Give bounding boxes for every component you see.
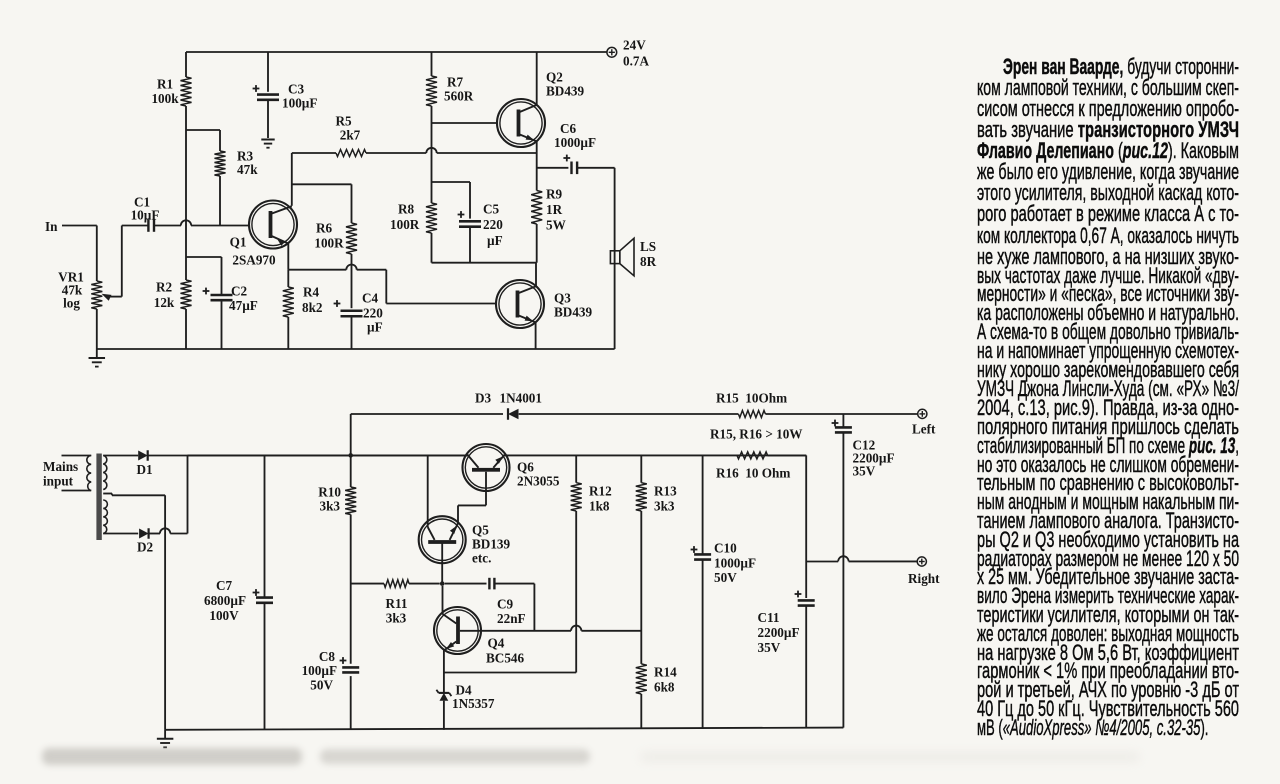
wire R8-R9 bottom rail	[432, 262, 537, 264]
resistor R7	[426, 75, 474, 107]
node junction dot raw supply	[348, 453, 353, 458]
svg-text:R5: R5	[335, 114, 352, 129]
wire R16 right leg	[768, 455, 807, 598]
capacitor C9	[489, 578, 525, 626]
svg-text:D1: D1	[136, 462, 152, 477]
svg-text:8k2: 8k2	[302, 300, 323, 315]
wire Q1 emitter riser	[291, 153, 293, 206]
svg-text:C2: C2	[231, 284, 248, 299]
svg-text:D2: D2	[137, 540, 154, 555]
svg-text:R2: R2	[156, 280, 173, 295]
terminal Left output	[912, 409, 936, 436]
svg-text:Left: Left	[912, 422, 936, 437]
svg-text:2200µF: 2200µF	[758, 625, 800, 640]
wire R1-R2 divider vertical	[185, 52, 187, 349]
svg-text:1N5357: 1N5357	[452, 696, 495, 711]
wire Q3 emitter	[535, 322, 537, 349]
wire R13-R14 vertical	[640, 455, 642, 728]
svg-text:C7: C7	[216, 578, 233, 593]
resistor R10	[318, 485, 356, 515]
svg-text:In: In	[45, 219, 58, 234]
diode D1	[136, 450, 152, 477]
svg-text:8R: 8R	[640, 254, 657, 269]
svg-text:C9: C9	[497, 597, 514, 612]
transistor Q2	[497, 70, 585, 148]
svg-text:35V: 35V	[758, 640, 781, 655]
svg-text:Q1: Q1	[230, 235, 247, 250]
svg-text:6k8: 6k8	[654, 680, 675, 695]
wire C6 to speaker	[577, 168, 614, 349]
transistor Q3	[496, 280, 593, 328]
resistor R9	[531, 153, 566, 263]
wire Q5 base down	[441, 544, 443, 584]
wire C5 branch	[432, 182, 471, 219]
svg-text:12k: 12k	[154, 295, 175, 310]
resistor R5	[335, 114, 366, 157]
svg-text:2N3055: 2N3055	[517, 474, 560, 489]
capacitor C2	[203, 284, 258, 350]
wire C9 right leg	[494, 584, 534, 631]
wire R7-R8 vertical	[431, 52, 433, 263]
wire C12 vertical	[842, 414, 844, 728]
wire wiper to C1	[122, 225, 149, 227]
svg-text:0.7A: 0.7A	[623, 54, 649, 69]
svg-text:2k7: 2k7	[340, 128, 361, 143]
svg-text:R15, R16 > 10W: R15, R16 > 10W	[710, 427, 803, 442]
svg-text:BD139: BD139	[472, 537, 511, 552]
svg-text:R13: R13	[654, 484, 677, 499]
svg-text:2SA970: 2SA970	[232, 253, 276, 268]
svg-text:R16 10 Ohm: R16 10 Ohm	[716, 466, 790, 481]
resistor R1	[151, 77, 191, 107]
svg-text:3k3: 3k3	[319, 499, 340, 514]
svg-text:1k8: 1k8	[589, 499, 610, 514]
capacitor C12	[832, 420, 895, 479]
speaker LS	[610, 238, 656, 275]
wire emitter to R12 return	[444, 672, 576, 674]
svg-text:1000µF: 1000µF	[554, 135, 596, 150]
wire Q2 base	[432, 122, 498, 124]
wire Q5 collector riser	[427, 455, 429, 527]
svg-text:560R: 560R	[444, 89, 474, 104]
svg-text:6800µF: 6800µF	[204, 593, 246, 608]
svg-text:C5: C5	[483, 202, 500, 217]
svg-text:D3: D3	[475, 391, 492, 406]
wire rectifier rail	[148, 455, 468, 457]
svg-text:Q5: Q5	[472, 523, 489, 538]
wire emitter to R6	[292, 184, 352, 223]
capacitor C11	[758, 591, 815, 728]
ground bottom schematic	[157, 730, 174, 748]
svg-text:Q6: Q6	[517, 460, 534, 475]
wire top-schematic ground rail	[97, 348, 615, 350]
ground main (input stage)	[89, 349, 106, 367]
wire raw rail to Q6	[188, 454, 468, 456]
resistor R6	[314, 221, 357, 255]
capacitor C10	[691, 541, 756, 586]
diode D2	[137, 528, 154, 554]
svg-text:100R: 100R	[390, 217, 420, 232]
resistor R13	[636, 483, 677, 514]
svg-text:3k3: 3k3	[386, 611, 407, 626]
svg-text:Q4: Q4	[488, 636, 505, 651]
svg-text:Q2: Q2	[546, 70, 563, 85]
svg-text:R6: R6	[316, 221, 333, 236]
wire R11 to C9	[445, 583, 487, 585]
wire D2 to rail riser	[149, 456, 188, 534]
svg-text:R10: R10	[318, 485, 341, 500]
transistor Q6	[463, 444, 560, 491]
transformer T1	[62, 454, 108, 541]
capacitor C5	[458, 202, 504, 263]
wire Q3 collector	[535, 263, 537, 287]
resistor R3	[215, 149, 259, 226]
svg-text:R11: R11	[386, 596, 408, 611]
wire R10-C8 vertical	[350, 455, 352, 729]
terminal Right output	[908, 557, 940, 586]
svg-text:µF: µF	[367, 320, 383, 335]
wire secondary top to rectifier rail	[103, 455, 138, 457]
wire D3 branch line	[351, 413, 739, 415]
transistor Q1	[230, 201, 297, 268]
wire C6 branch	[537, 167, 569, 169]
wire C7 vertical	[264, 455, 266, 729]
wire R11 line	[351, 583, 440, 585]
wire output feedback line	[292, 148, 537, 153]
scan artifact: blurred next-line band at bottom	[42, 748, 302, 765]
label R15 R16 power	[710, 427, 803, 442]
wire secondary bottom	[103, 533, 138, 535]
svg-text:R4: R4	[303, 285, 320, 300]
terminal 24V supply	[607, 38, 650, 69]
svg-text:35V: 35V	[853, 464, 876, 479]
svg-text:220: 220	[483, 217, 503, 232]
svg-text:24V: 24V	[623, 38, 646, 53]
capacitor C7	[204, 578, 273, 623]
svg-text:R7: R7	[447, 75, 464, 90]
capacitor C3	[253, 82, 318, 139]
wire Right output line	[806, 556, 917, 561]
wire regulated rail	[505, 454, 807, 456]
potentiometer VR1	[58, 226, 122, 350]
svg-text:R14: R14	[654, 665, 677, 680]
svg-text:5W: 5W	[546, 218, 566, 233]
svg-text:100R: 100R	[314, 236, 344, 251]
wire Q1 collector drop	[287, 244, 289, 270]
svg-text:etc.: etc.	[472, 551, 491, 566]
svg-text:C11: C11	[758, 610, 780, 625]
wire C10 vertical	[702, 455, 704, 728]
svg-text:3k3: 3k3	[654, 499, 675, 514]
svg-text:220: 220	[363, 306, 383, 321]
svg-text:50V: 50V	[310, 678, 333, 693]
svg-text:47µF: 47µF	[229, 298, 258, 313]
wire +24V top supply rail	[186, 51, 607, 53]
wire divider to C2	[186, 257, 222, 295]
resistor R4	[283, 270, 323, 349]
resistor R14	[636, 664, 677, 695]
wire divider to R3	[186, 130, 220, 151]
svg-text:47k: 47k	[237, 162, 258, 177]
wire Q2 emitter	[536, 141, 538, 153]
svg-text:1R: 1R	[546, 202, 563, 217]
wire Q6 base down	[458, 472, 486, 523]
svg-text:R12: R12	[589, 484, 612, 499]
resistor R15	[716, 391, 787, 418]
capacitor C6	[554, 121, 596, 174]
transistor Q4	[434, 607, 525, 666]
wire R6 to C4	[351, 254, 353, 308]
resistor R8	[390, 202, 437, 234]
svg-text:BD439: BD439	[546, 84, 585, 99]
svg-text:R9: R9	[546, 187, 563, 202]
svg-text:C4: C4	[362, 291, 379, 306]
wire Q2 collector	[536, 52, 538, 105]
transistor Q5	[419, 516, 511, 565]
wire bottom ground rail	[165, 728, 843, 730]
svg-text:R15 10Ohm: R15 10Ohm	[716, 391, 787, 406]
svg-text:BD439: BD439	[554, 305, 593, 320]
svg-text:100k: 100k	[151, 91, 179, 106]
svg-text:100µF: 100µF	[302, 663, 337, 678]
svg-text:µF: µF	[487, 233, 503, 248]
svg-text:1000µF: 1000µF	[714, 556, 756, 571]
svg-text:Right: Right	[908, 571, 940, 586]
wire Q4 collector line	[460, 626, 641, 631]
node junction dot Q5 base	[440, 581, 445, 586]
capacitor C4	[334, 291, 384, 350]
svg-text:R8: R8	[398, 202, 415, 217]
svg-text:10µF: 10µF	[131, 208, 160, 223]
ground C3	[261, 140, 274, 148]
svg-text:log: log	[63, 296, 80, 311]
svg-text:C3: C3	[288, 82, 305, 97]
node Mains input	[43, 459, 78, 489]
node In	[45, 219, 97, 234]
svg-text:C10: C10	[714, 541, 737, 556]
svg-text:Q3: Q3	[554, 291, 571, 306]
svg-text:Mains: Mains	[43, 459, 78, 474]
svg-text:input: input	[43, 474, 74, 489]
diode D3	[475, 391, 542, 420]
svg-text:50V: 50V	[714, 570, 737, 585]
wire C3 branch	[267, 52, 269, 92]
wire Q1 base	[154, 220, 249, 225]
resistor R11	[384, 580, 409, 626]
svg-text:100V: 100V	[209, 608, 239, 623]
resistor R12	[571, 483, 612, 514]
svg-text:C8: C8	[319, 649, 336, 664]
svg-text:BC546: BC546	[486, 651, 525, 666]
wire Q4 emitter drop	[443, 650, 445, 689]
svg-text:1N4001: 1N4001	[500, 391, 543, 406]
svg-text:LS: LS	[640, 239, 656, 254]
wire R15 to Left terminal	[765, 413, 917, 415]
svg-text:C6: C6	[560, 121, 577, 136]
wire Q4 base riser	[442, 586, 444, 614]
capacitor C8	[302, 649, 360, 693]
wire collector line to Q3 base	[288, 265, 496, 304]
zener D4	[436, 683, 494, 730]
capacitor C1	[131, 195, 160, 232]
resistor R2	[154, 280, 192, 311]
wire D3 drop to rail	[350, 414, 352, 455]
resistor R16	[716, 452, 790, 481]
svg-text:100µF: 100µF	[282, 96, 317, 111]
svg-text:R1: R1	[157, 77, 173, 92]
svg-text:22nF: 22nF	[497, 611, 526, 626]
wire center tap	[103, 494, 165, 730]
wire R12 vertical	[575, 455, 577, 672]
